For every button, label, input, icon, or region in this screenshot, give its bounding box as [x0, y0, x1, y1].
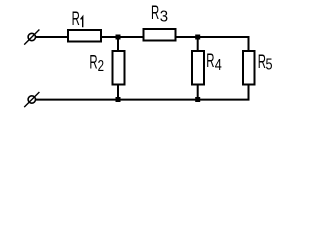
- svg-text:R: R: [72, 9, 80, 30]
- svg-text:R: R: [151, 3, 159, 24]
- svg-text:3: 3: [160, 8, 168, 25]
- svg-text:5: 5: [266, 56, 273, 74]
- svg-text:R: R: [89, 53, 97, 74]
- svg-text:4: 4: [215, 57, 222, 75]
- svg-text:R: R: [206, 51, 214, 72]
- svg-text:2: 2: [98, 56, 104, 74]
